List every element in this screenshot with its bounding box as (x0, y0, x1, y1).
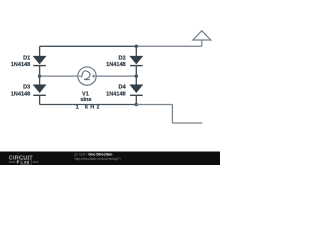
wire D4 cathode to bottom rail (135, 95, 137, 104)
wire D3 cathode to bottom rail (39, 95, 41, 104)
wire left column top (D1 anode lead) (39, 46, 41, 56)
svg-text:LAB: LAB (21, 161, 29, 165)
svg-text:sine: sine (80, 97, 91, 103)
diode D1 (33, 56, 46, 65)
wire top rail left (node A) (40, 45, 137, 47)
svg-text:D3: D3 (23, 85, 30, 91)
wire antenna stem (201, 40, 203, 46)
voltage source V1 (78, 67, 96, 85)
junction dot left mid (38, 74, 42, 78)
diode D2 (130, 56, 143, 65)
wire bottom rail right segment (136, 104, 172, 106)
svg-text:1N4148: 1N4148 (106, 62, 126, 68)
wire right step down (171, 105, 173, 124)
svg-text:D2: D2 (119, 56, 126, 62)
svg-text:1N4148: 1N4148 (11, 91, 31, 97)
wire right column top (D2 anode lead) (135, 46, 137, 56)
svg-text:http:⁄⁄circuitlab.com/c/nvfsq2: http:⁄⁄circuitlab.com/c/nvfsq27/ (75, 157, 121, 161)
svg-text:1 kHz: 1 kHz (76, 104, 102, 110)
wire bottom rail (node B) (40, 104, 137, 106)
wire bottom right stub (172, 122, 202, 124)
svg-text:1N4148: 1N4148 (11, 62, 31, 68)
svg-text:D1: D1 (23, 56, 30, 62)
footer logo LAB row (9, 160, 39, 165)
wire D1 cathode to mid rail (39, 66, 41, 77)
footer bar (0, 152, 220, 166)
junction dot right bottom (135, 103, 139, 107)
wire mid rail left segment (40, 75, 78, 77)
svg-text:1N4148: 1N4148 (106, 91, 126, 97)
wire top rail right to antenna (136, 45, 202, 47)
wire D2 cathode to mid rail (135, 66, 137, 77)
antenna power symbol (193, 31, 211, 40)
junction dot right mid (135, 74, 139, 78)
wire mid to D4 anode (135, 76, 137, 85)
junction dot right top (135, 45, 139, 49)
diode D4 (130, 85, 143, 96)
wire mid to D3 anode (39, 76, 41, 85)
wire mid rail right segment (96, 75, 136, 77)
svg-text:D4: D4 (119, 85, 127, 91)
svg-text:pr roof / One Direction: pr roof / One Direction (75, 153, 114, 157)
diode D3 (33, 85, 46, 96)
